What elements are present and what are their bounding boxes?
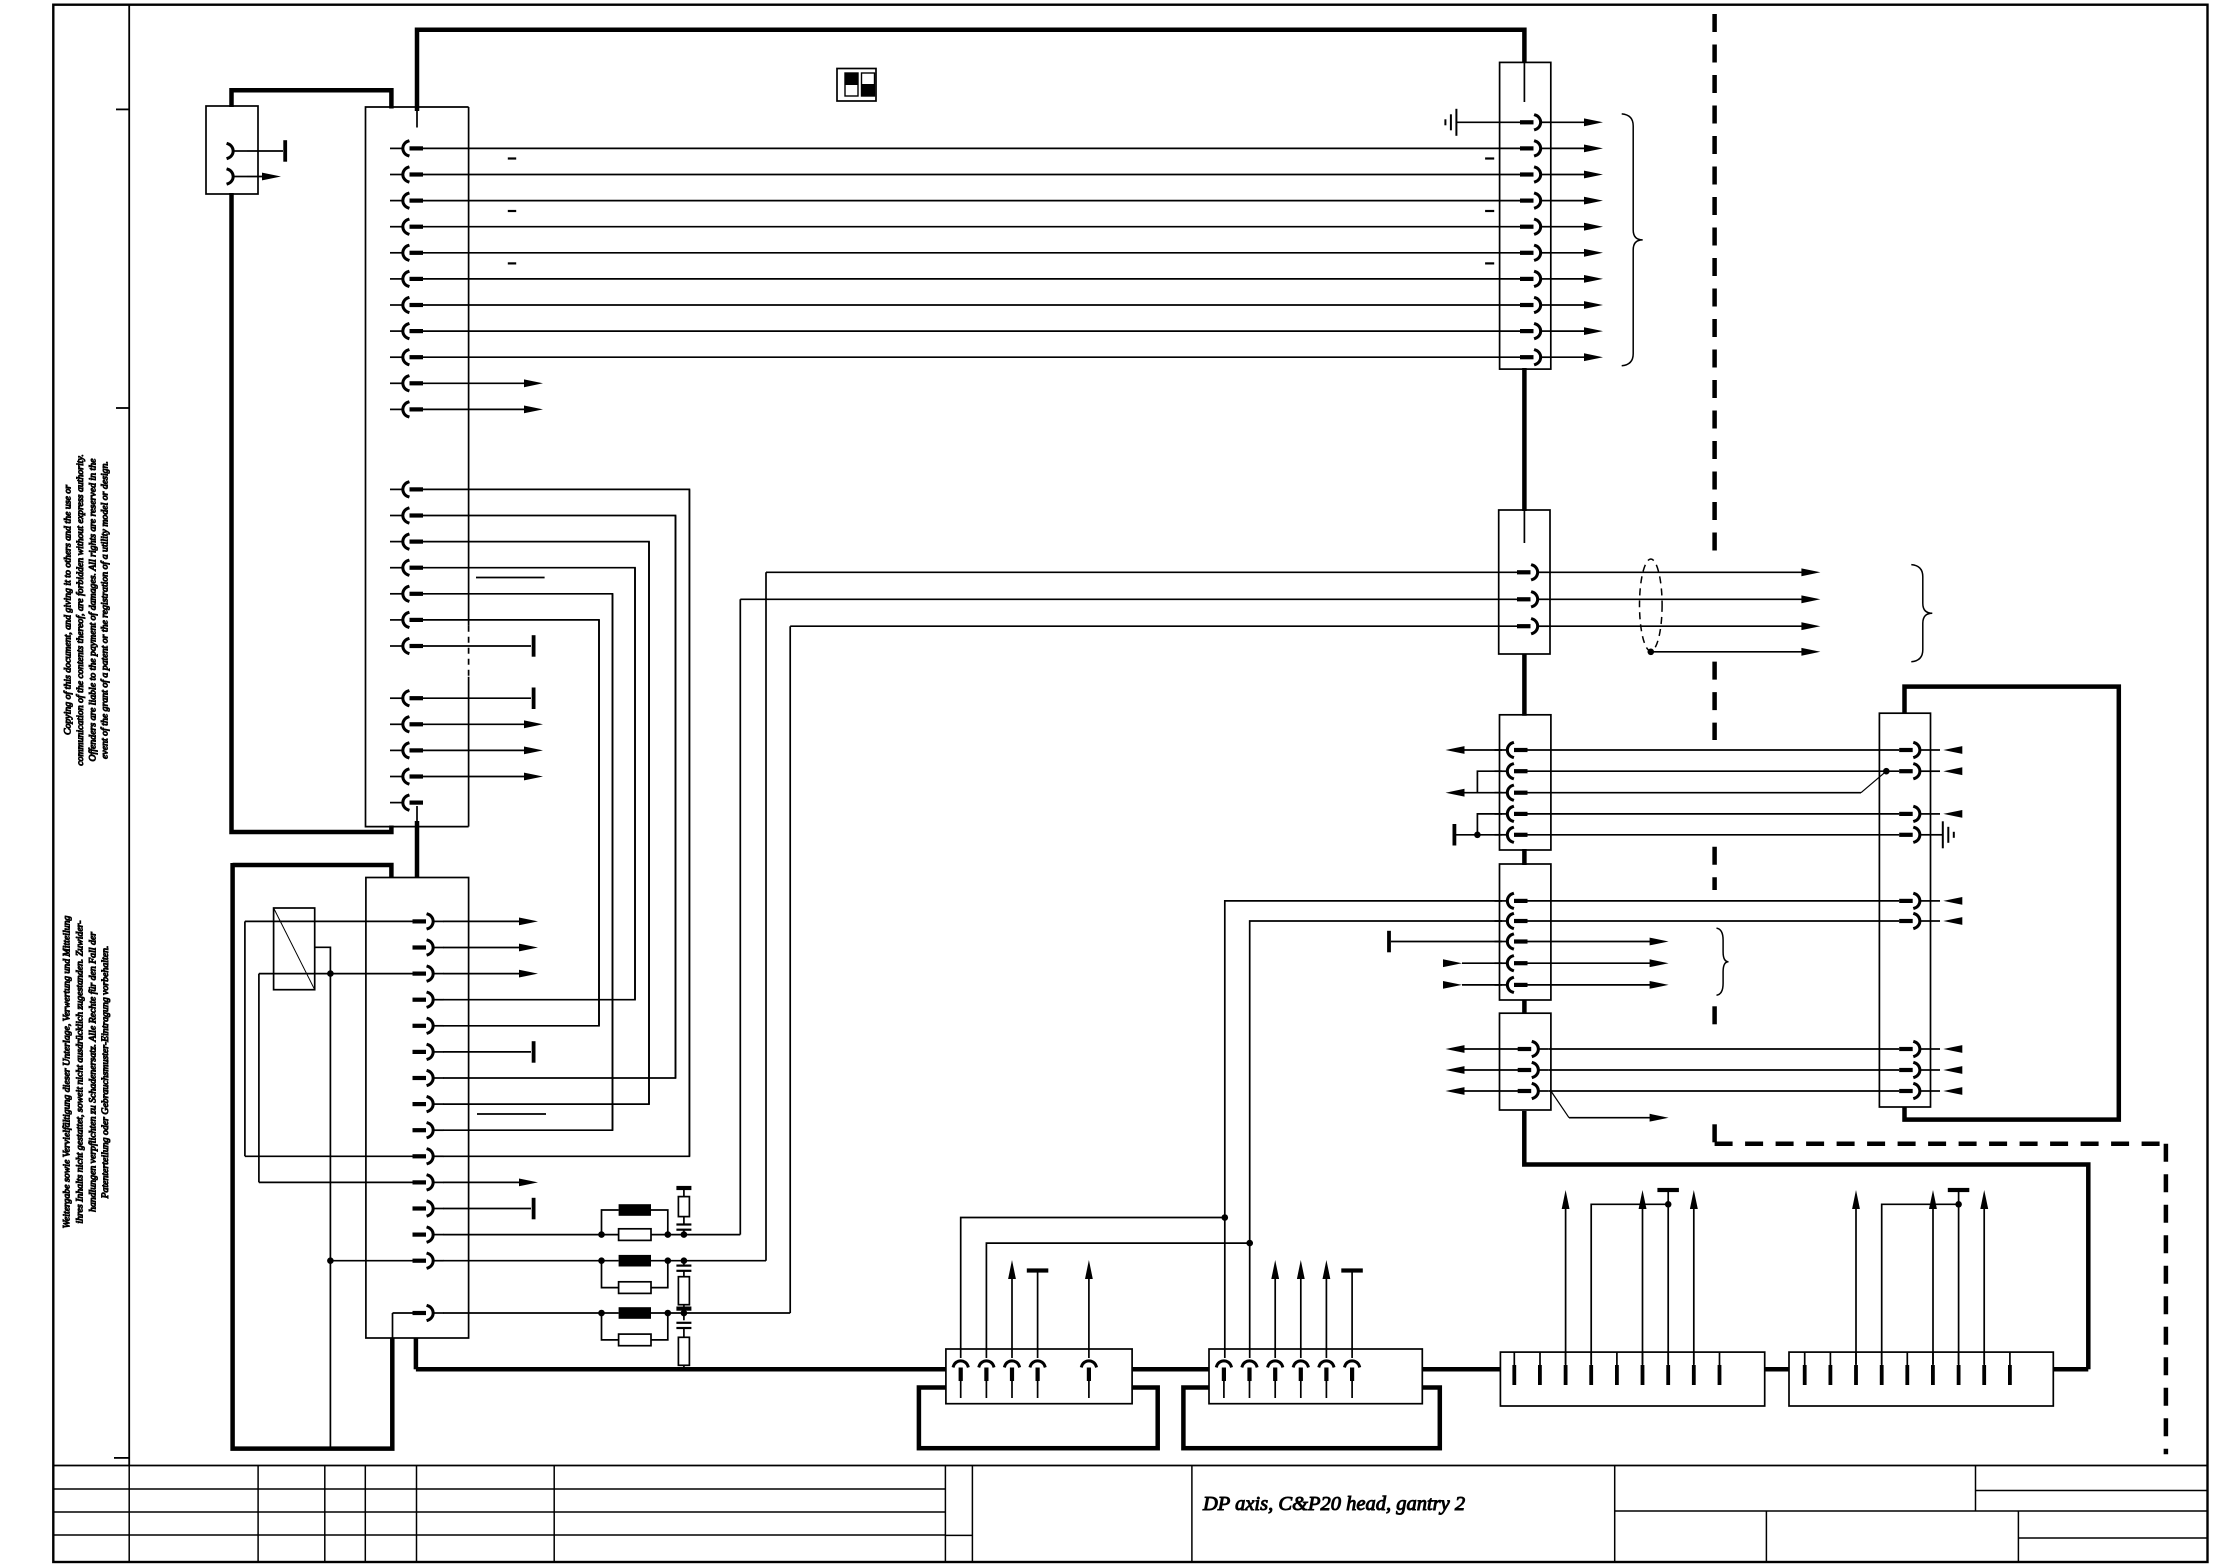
wire X9.4 arrow up [1297, 1260, 1305, 1358]
DIP switch S1 [837, 69, 876, 102]
wire thin stub into X4 top [1523, 62, 1525, 102]
terminator bar (X3.6) [532, 1041, 536, 1063]
wire X3.13 row [443, 599, 740, 1234]
earth ground at X7.4 [1930, 821, 1954, 848]
terminator T-bar X9.6 [1341, 1268, 1363, 1272]
wire X3.3 arrow [443, 970, 538, 978]
connector X11 pins (9) [1803, 1352, 2012, 1385]
wire thick X6B-X6C stub [1522, 1000, 1527, 1014]
wire X3.2 arrow [443, 944, 538, 952]
svg-text:DP axis, C&P20 head, gantry 2: DP axis, C&P20 head, gantry 2 [1202, 1493, 1465, 1515]
terminator T-bar (top of chain A) [676, 1186, 691, 1190]
junction dot cable shield [1648, 649, 1655, 656]
cable shield symbol (dashed oval) [1640, 559, 1663, 651]
wire bundle X2 middle group to X3 (nested U-links) [422, 489, 689, 1156]
svg-text:event of the grant of a patent: event of the grant of a patent or the re… [100, 461, 111, 759]
resistor R4 (black, series on row 14) [619, 1255, 651, 1267]
wire X10.7 to terminator [1667, 1190, 1669, 1364]
wire X3.9 link up [443, 594, 613, 1130]
housing G2 (thick box right) [1183, 1388, 1439, 1449]
wire X2.11 arrow [422, 406, 543, 414]
dashed boundary line (horizontal y=1143.7) [1715, 1141, 2166, 1146]
wire K1 primary link down (x=244.9) [244, 921, 246, 1156]
wire X5.2 to arrow [1548, 595, 1820, 603]
title block column lines [129, 1466, 1615, 1563]
wire X6A.2 to X7 [1527, 770, 1899, 772]
wire thick link X1 top to X2 frame [232, 90, 392, 108]
terminator T-bar X8.4 [1027, 1268, 1049, 1272]
wire bundle X2.1-9 to X4 (9 parallel lines) [422, 148, 1520, 357]
connector X7 pins (9) [1899, 743, 1930, 1098]
svg-text:handlungen verpflichten zu Sch: handlungen verpflichten zu Schadenersatz… [87, 932, 98, 1212]
capacitor C1 + resistor R3 chain (above row 13) [676, 1188, 691, 1235]
wire X6B.4 incoming arrow [1443, 959, 1502, 967]
terminator bar on X1.1 [283, 140, 287, 162]
wire X6A.5 to X7 [1527, 834, 1899, 836]
connector X10 body [1500, 1352, 1764, 1406]
connector X6B body [1500, 864, 1551, 1000]
copyright notice text (german, rotated) [62, 916, 112, 1229]
terminator bar X6A.5 [1453, 824, 1457, 846]
copyright notice text (english, rotated) [63, 454, 111, 766]
wire thick X2 to X3 bus (x=417) [409, 806, 425, 966]
wire X1.2 signal arrow [247, 173, 281, 181]
resistor R5 (parallel below row 14) [602, 1261, 668, 1294]
wire X6A.1 to X7 [1527, 749, 1899, 751]
wire X6C.1 to X7 [1549, 1048, 1900, 1050]
junction dot X6A.5 [1474, 832, 1481, 839]
svg-text:Weitergabe sowie Vervielfältig: Weitergabe sowie Vervielfältigung dieser… [62, 916, 73, 1229]
connector X6A pins (5) [1495, 743, 1528, 842]
wire X9.3 arrow up [1271, 1260, 1279, 1358]
wire X2 last pin stub to bus [417, 802, 422, 804]
wire X6A.1 left arrow [1446, 746, 1503, 754]
svg-text:communication of the contents: communication of the contents thereof, a… [75, 454, 86, 766]
connector X4 pins (10) [1520, 115, 1551, 364]
connector X8 pins (5) [954, 1361, 1097, 1398]
wire X6B.4 out arrow [1527, 959, 1669, 967]
wire X5.1 to arrow [1548, 568, 1820, 576]
wire thin stub into X5 top [1523, 510, 1525, 543]
wire thick top frame bus (y=30) [417, 30, 1524, 111]
wire X6B.1 from bottom connector riser [1225, 901, 1502, 1218]
terminator bar (row 698) [532, 688, 536, 710]
terminator T-bar X10.7 [1657, 1188, 1679, 1192]
wire X3.15 stub to frame [392, 1313, 394, 1338]
wire X11.8 arrow up [1980, 1190, 1988, 1364]
net label long dash (middle left area) [476, 577, 545, 579]
title block top line [53, 1465, 2207, 1467]
junction dot X3.14 left link [327, 1257, 334, 1264]
wire X10.3 arrow up [1562, 1190, 1570, 1364]
svg-text:Offenders are liable to the pa: Offenders are liable to the payment of d… [87, 458, 98, 762]
connector X2 pins (top group of 11) [390, 141, 423, 416]
title block row lines left section [53, 1489, 972, 1535]
wire X2 arrows (rows 724-777) [422, 720, 543, 780]
wire X6C.3 to X7 [1549, 1090, 1900, 1092]
wire X5.3 to arrow [1548, 622, 1820, 630]
wire X9.1 riser [1224, 1218, 1226, 1359]
wire K1 secondary link down (x=258.9) [258, 974, 260, 1183]
resistor R1 (black, parallel above row 13) [602, 1204, 668, 1234]
housing G1 (thick box left) [919, 1388, 1158, 1449]
wire thick left frame around X1/X2 (lower) [232, 193, 392, 832]
wire K1 output down to ground bus (x=330.4) [329, 974, 331, 1449]
wire X8.1 riser to junction [961, 1218, 1225, 1359]
brace (X4 outputs) [1622, 114, 1643, 366]
connector X5 pins (3) [1517, 565, 1548, 633]
relay K1 output notch [315, 947, 331, 973]
terminator T-bar X11.7 [1948, 1188, 1970, 1192]
wire thick X3 bottom to bottom bus [415, 1313, 417, 1369]
dashed boundary line (vertical x=2165.9) [2164, 1144, 2169, 1455]
wire X6A.5 from terminator [1456, 834, 1502, 836]
wire X2 pin to terminator (row 646) [422, 645, 531, 647]
net label dashes (left of X4 column B) [1485, 159, 1494, 264]
wire X10.8 arrow up [1690, 1190, 1698, 1364]
dashed boundary line (vertical x=1714.6) [1712, 14, 1717, 1144]
left margin inner border line [128, 5, 130, 1466]
resistor R7 (black, series on row 15) [619, 1307, 651, 1319]
title block right section lines [1615, 1466, 2208, 1563]
wire X9.2 riser [1249, 1243, 1251, 1358]
connector X1 pin 2 [228, 169, 247, 183]
wire X8.2 riser to junction [986, 1243, 1249, 1358]
resistor R8 (parallel below row 15) [602, 1313, 668, 1346]
wire X1.1 to terminator [247, 150, 283, 152]
wire X3.12 to terminator [443, 1208, 531, 1210]
junction dots row 13 [598, 1231, 687, 1238]
wire X6A.2 hook to row3 [1477, 771, 1502, 793]
connector X8 body [946, 1349, 1132, 1404]
unit U1 enclosure (thick box) [1905, 687, 2119, 1120]
wire X3.4 link up [443, 568, 635, 1000]
wire X6A.4 hook [1477, 814, 1502, 835]
wire X3.7 link up [443, 516, 676, 1079]
wire X3.11 from K1 and arrow [259, 1179, 538, 1187]
connector X1 pin 1 [228, 144, 247, 158]
junction dot X10.7 [1665, 1201, 1672, 1208]
terminator bar (X3.12) [532, 1198, 536, 1220]
svg-text:ihres Inhalts nicht gestattet,: ihres Inhalts nicht gestattet, soweit ni… [74, 920, 85, 1223]
junction dot X7 row2 [1883, 768, 1890, 775]
wire K1 secondary row (y=973.6) [259, 973, 413, 975]
wire X11.4 hook to X11.7 [1882, 1204, 1959, 1364]
wire K1 primary row (y=921.4) [245, 920, 413, 922]
wire X7 incoming arrows [1930, 746, 1962, 1095]
wire X11.3 arrow up [1852, 1190, 1860, 1364]
terminator T-bar (bottom of chain B) [676, 1307, 691, 1311]
connector X3 body [366, 878, 469, 1339]
connector X9 body [1209, 1349, 1422, 1404]
wire X6B.2 from bottom connector riser [1250, 921, 1502, 1243]
wire bundle X4 output arrows (10) [1551, 118, 1603, 361]
wire thick bottom-right riser and link [1524, 1111, 2088, 1369]
wire X6B.1 to X7 [1527, 900, 1899, 902]
wire X6B.2 to X7 [1527, 920, 1899, 922]
wire X6C branch diagonal to arrow [1551, 1091, 1669, 1122]
capacitor C3 + resistor R9 chain (below row 15) [676, 1313, 691, 1369]
connector X6A body [1500, 715, 1551, 850]
wire X6B.3 from terminator [1391, 941, 1502, 943]
terminator bar X6B.3 [1387, 931, 1391, 953]
wire X6C.2 left arrow [1446, 1066, 1520, 1074]
wire X3.8 link up [443, 542, 649, 1105]
connector X11 body [1789, 1352, 2053, 1406]
wire X10.6 arrow up [1639, 1190, 1647, 1364]
wire X2.10 arrow [422, 379, 543, 387]
junction dot (X6B.1 net) [1222, 1214, 1229, 1221]
junction dots row 14 [598, 1257, 687, 1264]
wire thick X5 bottom stub [1522, 654, 1527, 716]
connector X6B pins (5) [1495, 894, 1528, 992]
capacitor C2 + resistor R6 chain (below row 14) [676, 1261, 691, 1309]
wire X6B.5 out arrow [1527, 981, 1669, 989]
wire thin stub into X2 top [416, 108, 418, 128]
connector X6C body [1500, 1013, 1551, 1110]
wire thick left frame around X3 [233, 863, 393, 1449]
wire thick bottom bus (y=1369) [416, 1367, 2088, 1372]
connector X5 body [1499, 510, 1550, 654]
wire X10.4 hook to X10.7 [1591, 1204, 1668, 1364]
net label dashes (left of X4 column A) [508, 159, 516, 264]
wire X6C.3 left arrow [1446, 1087, 1520, 1095]
wire X8.5 arrow up [1085, 1260, 1093, 1358]
junction dot K1 output [327, 970, 334, 977]
wire X3.14 row [330, 572, 766, 1260]
wire X9.5 arrow up [1323, 1260, 1331, 1358]
wire X6B.3 out arrow [1527, 938, 1669, 946]
connector X2 pins (middle group of 6) [390, 482, 423, 627]
wire X3.5 link up [443, 620, 599, 1026]
title text: drawing name [1202, 1493, 1465, 1515]
connector X3 pins (15) [413, 914, 444, 1320]
resistor R2 (series on row 13) [619, 1229, 651, 1241]
junction dot (X6B.2 net) [1246, 1240, 1253, 1247]
wire thick X6A-X6B stub [1522, 849, 1527, 865]
earth ground at X4.1 [1445, 109, 1520, 136]
brace on boundary (small, mid-right) [1717, 928, 1729, 995]
wire X3.6 to terminator [443, 1051, 531, 1053]
wire shield drain to arrow [1651, 648, 1821, 656]
wire thick X4 bottom stub [1522, 368, 1527, 511]
wire X3.1 arrow [443, 918, 538, 926]
terminator bar (row 646) [532, 635, 536, 657]
connector X2 body [366, 107, 469, 827]
wire X2 pin to terminator (row 698) [422, 697, 531, 699]
connector X4 body [1500, 62, 1551, 369]
wire X6A.4 to X7 [1527, 813, 1899, 815]
connector X9 pins (6) [1217, 1361, 1360, 1398]
wire X6B.5 incoming arrow [1443, 981, 1502, 989]
wire X3.10 link up [245, 489, 690, 1156]
brace (X5 cable group) [1911, 565, 1932, 662]
junction dots row 15 [598, 1310, 687, 1317]
wire riser row13 to X5.2 [740, 598, 1520, 600]
wire X11.6 arrow up [1929, 1190, 1937, 1364]
wire X11.7 to terminator [1958, 1190, 1960, 1364]
connector X1 body [206, 106, 258, 194]
connector X2 pins (lower group of 6) [390, 639, 423, 810]
wire riser row15 to X5.3 [790, 625, 1520, 627]
svg-text:Patenterteilung oder Gebrauchs: Patenterteilung oder Gebrauchsmuster-Ein… [100, 946, 111, 1200]
wire X6C.2 to X7 [1549, 1069, 1900, 1071]
wire X3.15 row [393, 626, 791, 1313]
wire X6A.3 diagonal join [1527, 771, 1886, 793]
net label long dash (X3 area) [477, 1113, 546, 1115]
connector X6C pins (3) [1518, 1042, 1549, 1098]
wire X8.3 arrow up [1008, 1260, 1016, 1358]
junction dot X11.7 [1955, 1201, 1962, 1208]
wire X6C.1 left arrow [1446, 1045, 1520, 1053]
svg-text:Copying of this document, and: Copying of this document, and giving it … [63, 485, 74, 735]
wire riser row14 to X5.1 [766, 571, 1520, 573]
relay K1 body [274, 908, 315, 990]
wire X6A.3 left arrow [1446, 789, 1503, 797]
wire X8.4 to terminator [1037, 1271, 1039, 1359]
wire X9.6 to terminator [1351, 1271, 1353, 1359]
connector X7 body [1879, 713, 1930, 1107]
connector X10 pins (9) [1512, 1352, 1721, 1385]
fold marks on left margin [114, 109, 129, 1458]
